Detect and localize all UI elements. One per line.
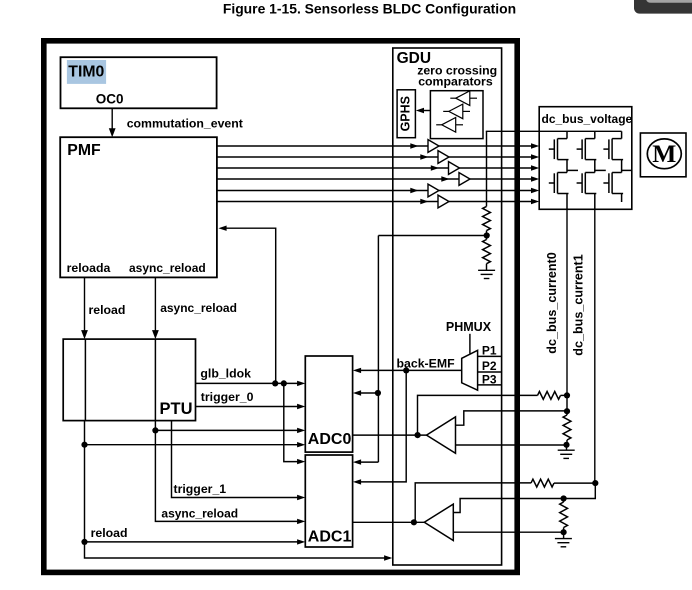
svg-text:comparators: comparators [418,74,493,88]
svg-text:P1: P1 [482,343,497,357]
svg-text:OC0: OC0 [96,92,124,107]
resistor feedback 1 [531,479,554,487]
svg-text:PMF: PMF [67,142,101,159]
wire glb_ldok PTU to ADC0 [196,382,299,384]
svg-text:M: M [652,139,676,168]
svg-text:GPHS: GPHS [399,96,413,131]
box zero crossing comparators [430,91,483,139]
block GDU [393,48,502,565]
wire opamp1 out to ADC1 [353,521,425,523]
wire divider drop [486,131,488,206]
browser UI fragment top-right [634,0,692,14]
gate driver buffer 0 [428,140,439,153]
bridge column 2 phase lead [621,160,623,173]
wire dc_bus_current1 [594,209,596,483]
wire pwm3 PMF to gate driver [217,178,459,180]
motor circle [647,139,681,169]
bridge column 0 source lead [566,194,568,210]
resistor feedback 0 [538,392,561,400]
wire opamp0 out to ADC0 [353,434,427,436]
ground divider1 [555,538,572,540]
wire reload PMF to PTU [84,277,86,332]
wire back-EMF to ADC1 [356,370,406,482]
node glb_ldok down [281,380,287,386]
gate driver buffer 5 [438,195,449,208]
op-amp current sense 1 [424,504,453,540]
gate driver buffer 2 [449,162,460,175]
op-amp current sense 0 [427,417,456,453]
wire opamp0 feedback [418,395,538,435]
bridge column 1 phase lead [594,160,596,173]
resistor divider upper [483,206,491,230]
node reload to ADC0 [81,442,87,448]
svg-text:PHMUX: PHMUX [446,320,492,334]
wire async to ADC0 [155,429,298,431]
svg-text:async_reload: async_reload [129,261,206,275]
wire dc bus rail to divider [486,130,622,132]
wire dc_bus_current0 [566,209,568,395]
svg-text:trigger_1: trigger_1 [174,482,227,496]
mosfet high side 0 [558,138,568,140]
bridge column 2 drain lead [621,131,623,138]
block ADC1 [305,455,352,547]
mosfet low side 0 [558,172,568,174]
svg-text:ADC0: ADC0 [308,431,352,448]
comparator 2 [443,110,449,112]
wire opamp1 plus input [453,499,563,513]
node reload to ADC1 [81,539,87,545]
wire pwm5 PMF to gate driver [217,201,438,203]
wire PHMUX label to mux [469,334,471,354]
wire trigger_0 PTU to ADC0 [196,406,299,408]
outer border frame [44,41,517,573]
svg-text:reload: reload [89,303,126,317]
wire pwm2 PMF to gate driver [217,167,449,169]
block motor [640,133,686,177]
bridge column 0 drain lead [566,131,568,138]
svg-text:TIM0: TIM0 [68,63,104,80]
gate driver buffer 3 [459,173,470,186]
wire tap to ADC0 [356,392,378,394]
svg-text:trigger_0: trigger_0 [201,390,254,404]
wire pwm5 driver to bridge [449,201,532,203]
ground divider0 [558,449,575,451]
node glb_ldok up [272,380,278,386]
block ADC0 [305,356,352,452]
wire comparators to GPHS [423,110,431,112]
svg-text:async_reload: async_reload [161,506,238,520]
svg-text:glb_ldok: glb_ldok [200,367,251,381]
bridge column 0 phase stub [567,169,578,171]
wire pwm0 driver to bridge [439,145,532,147]
node async to ADC0 [152,427,158,433]
node tap branch [375,390,381,396]
wire glb_ldok branch to ADC1 [284,383,298,461]
mosfet low side 2 [612,172,622,174]
mosfet high side 1 [585,138,595,140]
svg-text:Figure 1-15. Sensorless BLDC C: Figure 1-15. Sensorless BLDC Configurati… [223,0,516,16]
node opamp0 out [415,432,421,438]
wire reload to ADC1 [85,541,299,543]
wire pwm4 driver to bridge [439,190,532,192]
bridge column 2 phase stub [622,169,632,171]
gate driver buffer 4 [428,184,439,197]
wire async_reload PMF to PTU [154,277,156,332]
node divider1 top [561,495,567,501]
wire divider tap to ADC feed [378,235,486,237]
PTU divider line 2 [154,339,156,421]
svg-text:dc_bus_current0: dc_bus_current0 [545,252,559,354]
block PTU [63,339,195,421]
block dc_bus_voltage bridge [539,107,632,210]
bridge column 1 drain lead [594,131,596,138]
wire TIM0 OC0 to PMF [111,108,113,130]
node back-EMF branch [403,367,409,373]
wire back-EMF mux to ADC0 [356,369,462,371]
svg-text:dc_bus_current1: dc_bus_current1 [572,254,586,356]
bridge column 1 phase stub [595,169,606,171]
wire opamp0 minus input [456,444,567,446]
wire P1 [478,355,502,357]
wire opamp0 plus input [456,411,568,425]
node current0 tap [564,392,570,398]
svg-text:PTU: PTU [160,400,193,418]
comparator 3 [436,124,442,126]
block GPHS [397,90,415,138]
wire tap drop to ADCs [377,236,379,463]
svg-text:P2: P2 [482,359,497,373]
bridge column 2 source lead [621,194,623,203]
mosfet low side 1 [585,172,595,174]
svg-text:reload: reload [91,526,128,540]
wire reload drop below PTU [85,421,391,558]
wire opamp1 feedback [415,483,531,522]
wire P2 [478,371,502,373]
node divider0 bottom [563,442,569,448]
wire current0 to divider0 [566,395,568,411]
bridge column 1 source lead [594,194,596,210]
wire P3 [478,384,502,386]
wire pwm0 PMF to gate driver [217,145,428,147]
svg-text:async_reload: async_reload [160,301,237,315]
wire commutation feedback into PMF [226,228,276,381]
node divider1 bottom [561,529,567,535]
resistor divider0 [563,415,571,440]
block TIM0 [61,57,217,108]
wire pwm2 driver to bridge [460,167,532,169]
node current1 tap [592,480,598,486]
PTU divider line 1 [84,339,86,421]
mux PHMUX [462,350,478,390]
node opamp1 out [411,519,417,525]
wire async drop below PTU [155,421,298,522]
wire pwm3 driver to bridge [470,178,532,180]
wire reload to ADC0 [85,444,299,446]
resistor divider lower [483,240,491,264]
mosfet high side 2 [612,138,622,140]
svg-text:reloada: reloada [67,261,111,275]
resistor divider1 [560,502,568,528]
bridge column 0 phase lead [566,160,568,173]
node divider0 top [564,408,570,414]
wire current1 to divider1 [564,483,596,498]
wire pwm1 driver to bridge [449,156,532,158]
svg-text:commutation_event: commutation_event [127,117,243,131]
wire pwm1 PMF to gate driver [217,156,438,158]
wire pwm4 PMF to gate driver [217,190,428,192]
wire tap to ADC1 [356,461,378,463]
svg-text:dc_bus_voltage: dc_bus_voltage [542,112,633,126]
ground divider [478,269,495,271]
svg-text:ADC1: ADC1 [308,529,352,546]
gate driver buffer 1 [438,151,449,164]
comparator 1 [450,97,456,99]
wire trigger_1 below PTU [172,421,299,498]
block PMF [60,137,217,277]
node divider mid [484,232,490,238]
TIM0 highlight [67,60,106,84]
wire opamp1 minus input [453,531,563,533]
